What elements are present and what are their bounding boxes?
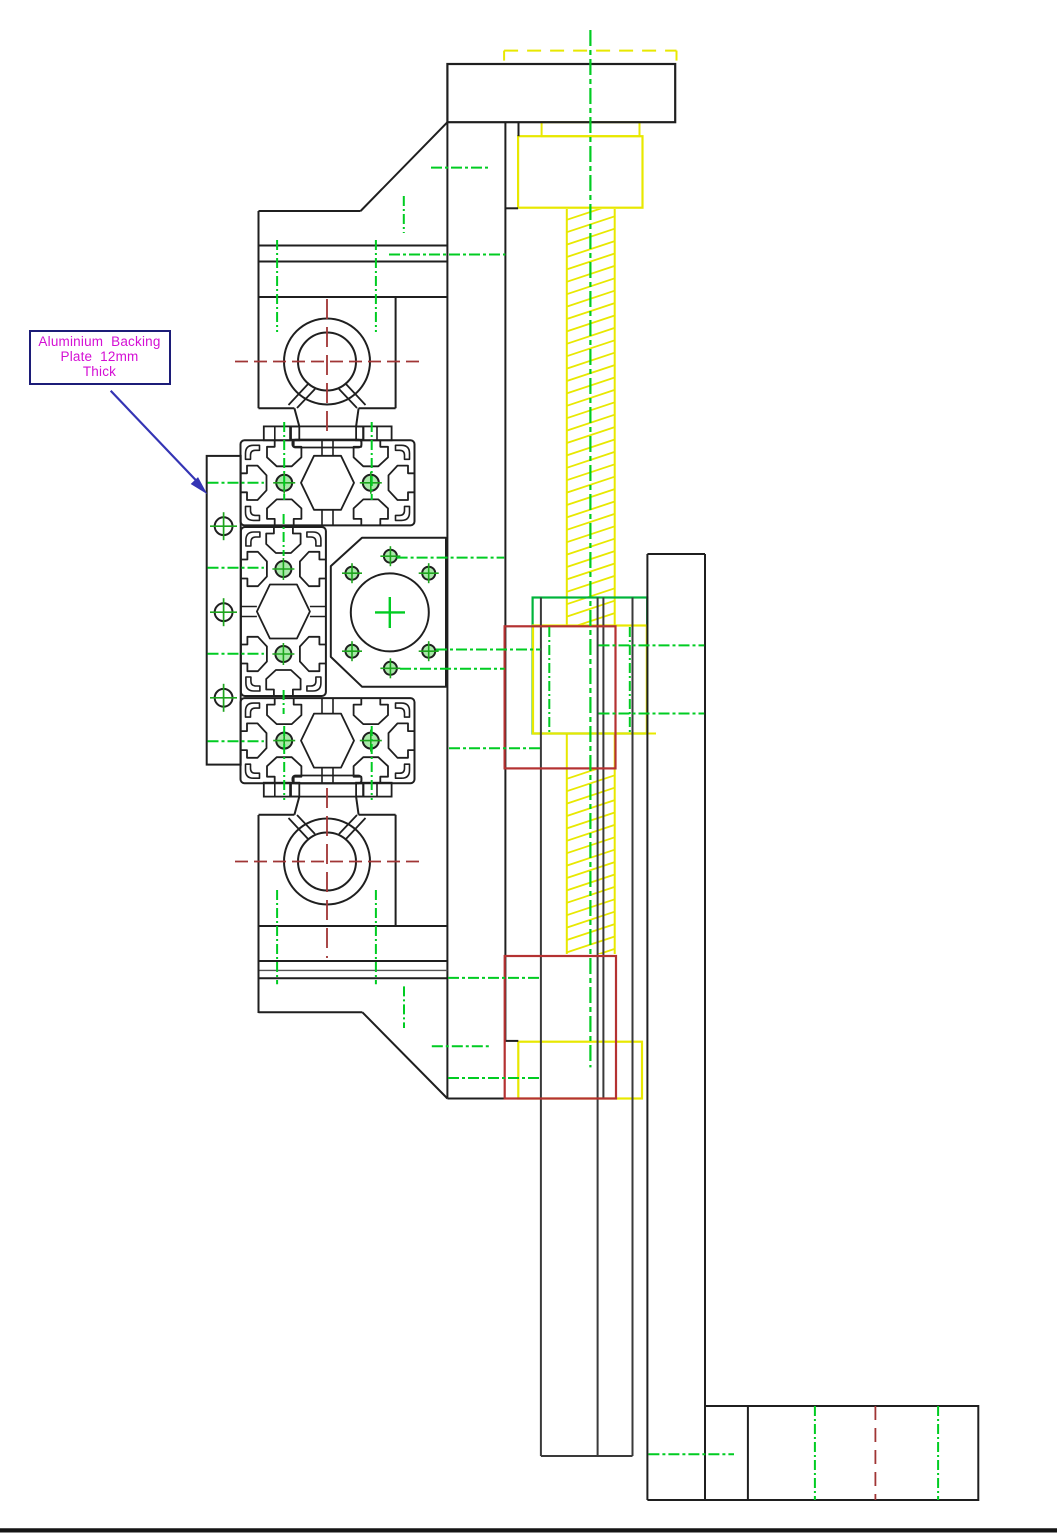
bottom bearing horizontal centerline red bbox=[235, 861, 419, 863]
foot screw shanks bbox=[274, 426, 276, 440]
green foot bolts bottom bbox=[283, 726, 285, 800]
motor mount plate bbox=[331, 538, 446, 687]
bearing neck bbox=[294, 408, 299, 426]
top plate bbox=[447, 64, 675, 122]
step under coupler bbox=[505, 207, 518, 209]
green nut verticals bbox=[548, 627, 550, 733]
upper bracket top edge bbox=[259, 210, 361, 212]
green bolt line top block right bbox=[375, 240, 377, 332]
screw housing inner wall bbox=[597, 598, 599, 1457]
bearing clamp slits bbox=[289, 383, 310, 405]
bearing outer ring bbox=[284, 319, 370, 405]
carriage second vertical bbox=[504, 122, 506, 1041]
carriage right edge vertical bbox=[446, 122, 448, 1098]
gusset diagonal bottom bbox=[362, 1012, 447, 1098]
label: Aluminium Backing Plate 12mm Thick bbox=[29, 330, 171, 385]
green ref lower 3 bbox=[448, 1077, 540, 1079]
green bolt line bottom block left bbox=[276, 890, 278, 984]
green ref lower 1 bbox=[448, 977, 540, 979]
column foot bottom edge bbox=[647, 1499, 705, 1501]
bearing foot boss bbox=[291, 783, 364, 796]
main vertical centerline bbox=[589, 30, 591, 1067]
extrusion hexagon core bbox=[257, 585, 310, 639]
green joint ticks bbox=[283, 514, 285, 556]
motor centre mark bbox=[375, 611, 405, 613]
upper bracket left edge bbox=[258, 211, 260, 408]
green ref motor bottom bolt bbox=[400, 668, 505, 670]
extrusion outer contour bbox=[241, 527, 326, 696]
extrusion corner details bbox=[246, 532, 260, 546]
t-nut bar bbox=[292, 440, 361, 448]
bearing block housing bbox=[395, 815, 397, 926]
bearing clamp slits bbox=[289, 818, 310, 840]
aluminium backing plate bbox=[207, 456, 241, 765]
green ref below nut left bbox=[449, 747, 541, 749]
base red centerline bbox=[874, 1406, 876, 1500]
extrusion corner details bbox=[246, 703, 260, 717]
foot screw shanks bbox=[274, 783, 276, 797]
lower red bearing rect bbox=[505, 956, 616, 1099]
green ref plate row 3 bbox=[208, 653, 264, 655]
green bolt line top block left bbox=[276, 240, 278, 332]
extrusion centre channels bbox=[241, 606, 257, 608]
nut flange yellow bottom extension bbox=[647, 733, 656, 735]
extrusion hexagon core bbox=[301, 456, 354, 510]
extrusion outer contour bbox=[241, 440, 415, 525]
base divider bbox=[747, 1406, 749, 1500]
extrusion screw bores bbox=[276, 733, 292, 749]
right column bbox=[646, 554, 648, 1500]
base plate bbox=[705, 1406, 978, 1500]
green tick bottom bbox=[403, 986, 405, 1028]
screw coupler body bbox=[518, 136, 642, 208]
green tick top coupler bbox=[403, 196, 405, 233]
short vertical at coupler bbox=[518, 122, 520, 136]
bottom bearing vertical centerline red bbox=[326, 788, 328, 958]
lower yellow bearing rect bbox=[518, 1042, 642, 1099]
step to lower yellow rect bbox=[505, 1040, 518, 1042]
bottom border line bbox=[0, 1528, 1057, 1532]
extrusion T-slot cavities bbox=[241, 552, 267, 586]
extrusion T-slot cavities bbox=[267, 440, 301, 466]
extrusion T-slot cavities bbox=[267, 698, 301, 724]
top bearing horizontal centerline red bbox=[235, 361, 419, 363]
green ref plate row 4 bbox=[208, 740, 264, 742]
green ref line upper bbox=[389, 254, 505, 256]
green ref line top left bbox=[431, 167, 488, 169]
extrusion corner details bbox=[246, 445, 260, 459]
extrusion outer contour bbox=[241, 698, 415, 783]
screw housing bottom edge bbox=[541, 1455, 633, 1457]
motor boss bore bbox=[351, 573, 429, 651]
bearing bore bbox=[298, 833, 356, 891]
green foot bolts top bbox=[283, 422, 285, 500]
backing plate bolt holes bbox=[215, 517, 233, 535]
bearing foot tabs bbox=[264, 426, 300, 440]
bearing foot tabs bbox=[264, 783, 300, 797]
gusset diagonal top bbox=[361, 122, 448, 211]
green ref plate row 2 bbox=[208, 567, 264, 569]
green ref nut right lower bbox=[599, 713, 705, 715]
bearing foot boss bbox=[291, 426, 364, 439]
extrusion screw bores bbox=[276, 475, 292, 491]
yellow datum dashes above top plate bbox=[504, 50, 676, 52]
green ref motor right bolt bbox=[436, 649, 541, 651]
bearing block housing bbox=[395, 297, 397, 408]
t-nut bar bbox=[292, 776, 361, 784]
ballscrew nut yellow rect bbox=[533, 626, 647, 734]
screw housing left wall bbox=[540, 598, 542, 1457]
lead screw shaft outline bbox=[567, 209, 615, 954]
extrusion screw bores bbox=[275, 561, 291, 577]
extrusion centre channels bbox=[321, 698, 323, 714]
bearing outer ring bbox=[284, 819, 370, 905]
screw coupler small rect bbox=[542, 122, 640, 136]
bottom edge to red rect bbox=[447, 1098, 505, 1100]
lower bracket bottom edge bbox=[259, 1011, 363, 1013]
green ref motor top bolt bbox=[397, 557, 505, 559]
green ref plate row 1 bbox=[208, 482, 264, 484]
lower bracket left edge bbox=[258, 815, 260, 1013]
screw housing right wall bbox=[632, 598, 634, 1457]
screw housing inner wall 2 bbox=[602, 598, 604, 1099]
leader arrow to backing plate bbox=[111, 391, 199, 484]
lower bracket bar lines bbox=[259, 925, 448, 927]
green bolt line bottom block right bbox=[375, 890, 377, 984]
nut housing selected rect green bbox=[533, 598, 648, 734]
upper bracket bar lines bbox=[259, 245, 448, 247]
green ref nut right upper bbox=[599, 644, 705, 646]
top bearing vertical centerline red bbox=[326, 299, 328, 436]
green ref base bbox=[648, 1453, 734, 1455]
upper red bearing rect bbox=[505, 626, 616, 768]
motor bolt holes bbox=[384, 550, 397, 563]
green base verticals bbox=[814, 1406, 816, 1500]
bearing bore bbox=[298, 333, 356, 391]
bearing neck bbox=[294, 797, 299, 815]
extrusion hexagon core bbox=[301, 714, 354, 768]
extrusion centre channels bbox=[321, 440, 323, 456]
green ref lower 2 bbox=[432, 1045, 492, 1047]
